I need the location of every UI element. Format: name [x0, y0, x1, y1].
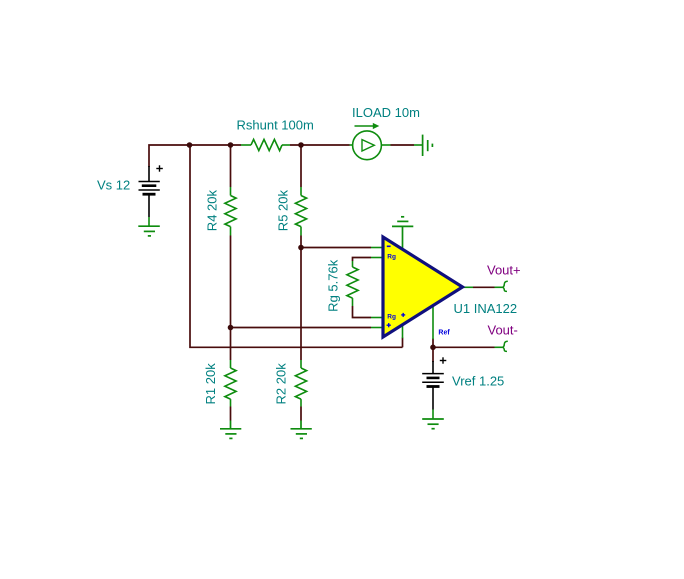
current source ILOAD right stub: [381, 144, 390, 146]
battery Vs ground stub green: [148, 217, 150, 226]
battery Vs plus sign: [156, 165, 163, 171]
svg-text:ILOAD 10m: ILOAD 10m: [352, 105, 420, 120]
current source ILOAD inner triangle: [362, 140, 374, 151]
resistor Rshunt: [241, 139, 290, 150]
resistor Rg: [347, 261, 358, 306]
battery Vref plates: [422, 374, 444, 387]
svg-text:R5 20k: R5 20k: [275, 190, 290, 232]
svg-text:R1 20k: R1 20k: [203, 363, 218, 405]
battery Vref plus sign: [440, 357, 447, 363]
svg-text:R4 20k: R4 20k: [204, 190, 219, 232]
svg-text:U1 INA122: U1 INA122: [454, 301, 518, 316]
resistor R1: [225, 360, 236, 407]
wire Ref pin down to node: [432, 339, 434, 348]
junction node R4 bottom / non-inverting input: [228, 325, 234, 331]
svg-text:Vref 1.25: Vref 1.25: [452, 374, 504, 389]
ground under R1: [220, 421, 241, 439]
op-amp pin label plus bottom: [387, 323, 391, 327]
terminal Vout-: [495, 346, 504, 348]
current source ILOAD arrow: [355, 125, 377, 127]
wire Rg loop: [353, 258, 372, 262]
svg-text:Rg 5.76k: Rg 5.76k: [326, 259, 341, 312]
current source ILOAD left stub: [350, 144, 353, 146]
op-amp pin label minus: [387, 245, 391, 247]
op-amp pin marker plus mid: [401, 313, 405, 317]
svg-text:Vs 12: Vs 12: [97, 177, 130, 192]
ground under Vs: [138, 226, 160, 236]
wire Ref node down to Vref battery: [432, 347, 434, 362]
battery Vs lead bottom black: [148, 195, 150, 217]
resistor R4: [225, 187, 236, 236]
resistor R5: [295, 187, 306, 236]
wire R5 bottom through node to R2: [300, 236, 302, 361]
ground sideways right of ILOAD: [414, 144, 423, 146]
wire ILOAD right to ground: [391, 144, 415, 146]
svg-text:Ref: Ref: [438, 329, 450, 336]
ground under Vref: [422, 419, 444, 429]
current source ILOAD circle: [353, 131, 382, 160]
wire R1 bottom to ground: [230, 407, 232, 421]
junction node Ref / Vref: [430, 345, 436, 351]
svg-text:Vout+: Vout+: [487, 262, 521, 277]
battery Vs plates: [139, 182, 160, 195]
battery Vref lead top black: [432, 361, 434, 374]
wire Rshunt right to ILOAD: [290, 144, 350, 146]
battery Vref ground stub green: [432, 410, 434, 420]
svg-text:Rg: Rg: [387, 254, 396, 261]
wire node to op-amp inverting input: [301, 247, 371, 249]
ground under R2: [291, 421, 312, 439]
wire Ref node to Vout- terminal: [433, 346, 495, 348]
terminal Vout+: [495, 286, 504, 288]
svg-text:Rshunt 100m: Rshunt 100m: [237, 117, 314, 132]
junction node R4 top: [228, 142, 234, 148]
wire V- pin riser: [402, 338, 404, 348]
wire R4 bottom to node dot and R1: [230, 236, 232, 361]
svg-text:R2 20k: R2 20k: [273, 363, 288, 405]
wire left rail from node A down: [190, 145, 403, 347]
junction node A (Vs top): [187, 142, 193, 148]
ground above op-amp (inverted): [392, 217, 413, 250]
svg-text:Vout-: Vout-: [488, 323, 518, 338]
wire top horizontal net from Vs to Rshunt: [149, 145, 241, 167]
wire output to Vout+ terminal: [473, 286, 495, 288]
battery Vref lead bottom black: [432, 387, 434, 409]
junction node R5 top: [298, 142, 304, 148]
battery Vs lead top black: [148, 166, 150, 182]
op-amp U1 pin stubs green: [371, 248, 473, 340]
svg-text:Rg: Rg: [387, 313, 396, 320]
op-amp U1 triangle: [383, 237, 463, 337]
wire R2 bottom to ground: [300, 407, 302, 421]
wire R5 rail top: [300, 145, 302, 187]
wire node to op-amp non-inverting input: [231, 327, 372, 329]
resistor R2: [295, 360, 306, 407]
junction node R5 bottom / inverting input: [298, 245, 304, 251]
wire R4 rail top: [230, 145, 232, 187]
